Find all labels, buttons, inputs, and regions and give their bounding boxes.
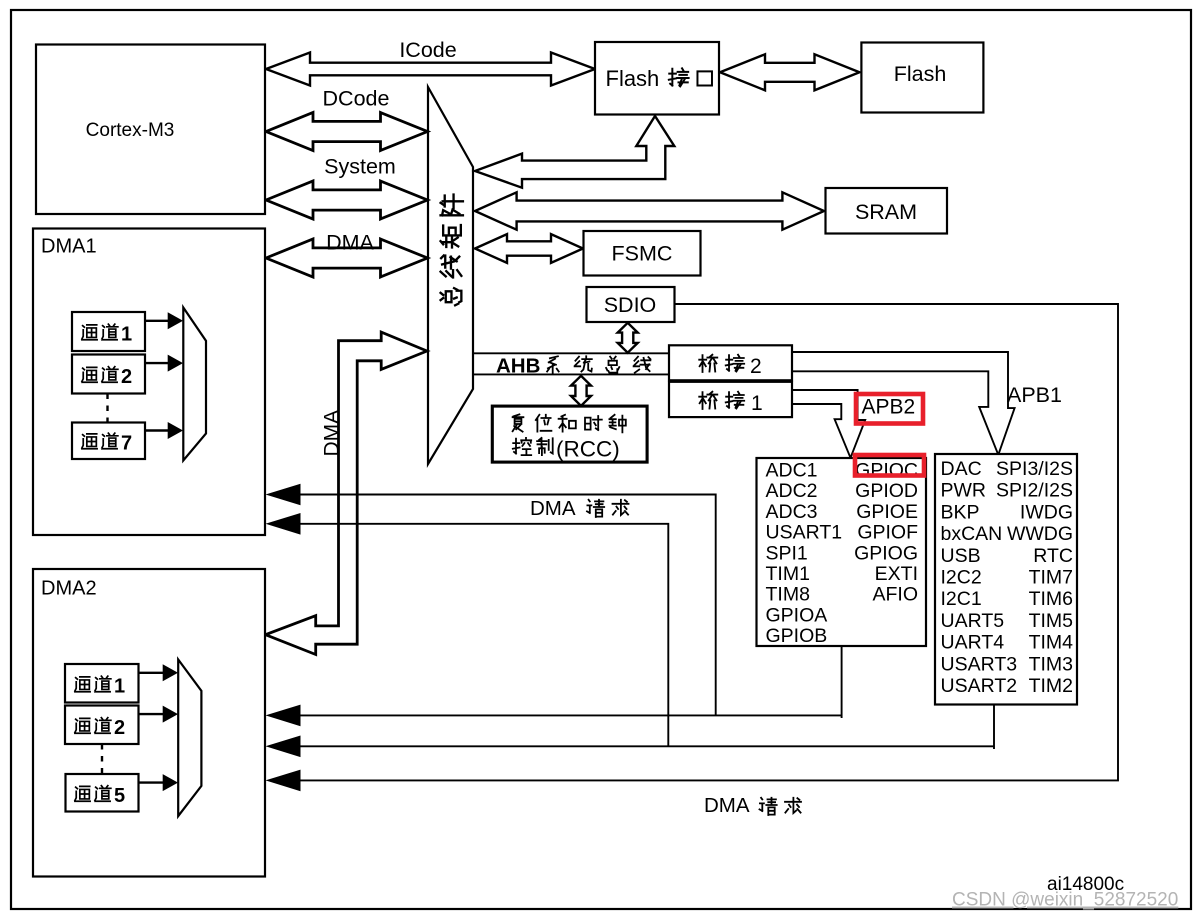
svg-text:IWDG: IWDG <box>1020 501 1073 523</box>
svg-text:DMA1: DMA1 <box>41 236 97 258</box>
arrowhead DMA request into DMA1 lower <box>266 513 301 535</box>
svg-text:WWDG: WWDG <box>1007 523 1073 545</box>
SDIO to AHB vertical double arrow <box>618 323 638 353</box>
svg-text:GPIOC: GPIOC <box>855 460 918 482</box>
stub DMA2 ch1 to mux <box>139 672 165 674</box>
wire DMA request branch to DMA1 ch A <box>292 495 716 716</box>
block RCC reset and clock control <box>492 406 647 462</box>
wire bridge2 to APB1 funnel left <box>792 371 998 455</box>
FSMC double arrow <box>475 234 583 263</box>
svg-text:I2C1: I2C1 <box>941 588 982 610</box>
arrowhead DMA request into DMA2 first <box>266 705 301 727</box>
channel box DMA1 ch1 <box>72 312 145 351</box>
svg-text:GPIOE: GPIOE <box>856 501 918 523</box>
svg-text:BKP: BKP <box>941 501 980 523</box>
svg-text:DMA2: DMA2 <box>41 578 97 600</box>
stub DMA1 ch7 to mux <box>145 429 169 431</box>
svg-text:Flash: Flash <box>894 62 947 86</box>
mux trapezoid DMA1 <box>183 308 206 461</box>
AHB to RCC vertical double arrow <box>571 376 591 406</box>
block SDIO <box>587 287 675 322</box>
arrowhead DMA request into DMA1 upper <box>266 484 301 506</box>
svg-text:2: 2 <box>121 366 132 388</box>
bent DMA arrow DMA2 to bus matrix <box>266 332 428 654</box>
svg-text:TIM7: TIM7 <box>1029 567 1073 589</box>
wire DMA request line into DMA2 second <box>292 745 994 747</box>
mux trapezoid DMA2 <box>178 660 201 817</box>
svg-text:GPIOB: GPIOB <box>766 625 828 647</box>
red highlight box GPIOC <box>855 455 924 476</box>
wire APB2 peripherals down stub <box>841 646 843 718</box>
bent arrow bus matrix to Flash interface <box>475 116 674 188</box>
block bridge1 <box>669 382 792 417</box>
svg-text:System: System <box>324 155 396 179</box>
svg-text:(RCC): (RCC) <box>556 437 620 462</box>
wire SDIO to DMA2 request loop <box>292 304 1118 780</box>
arrowhead DMA request into DMA2 second <box>266 736 301 758</box>
block APB1 peripherals <box>935 454 1077 705</box>
channel box DMA1 ch7 <box>72 423 145 460</box>
svg-text:DMA: DMA <box>321 410 344 457</box>
svg-text:bxCAN: bxCAN <box>941 523 1003 545</box>
wire bridge2 to APB1 funnel right <box>792 352 1015 455</box>
svg-text:USART1: USART1 <box>766 522 843 544</box>
svg-text:TIM3: TIM3 <box>1029 653 1073 675</box>
block SRAM <box>826 188 948 234</box>
svg-text:UART4: UART4 <box>941 632 1005 654</box>
svg-text:AFIO: AFIO <box>872 584 918 606</box>
block DMA1 <box>33 229 265 536</box>
svg-text:TIM8: TIM8 <box>766 584 810 606</box>
svg-text:CSDN @weixin_52872520: CSDN @weixin_52872520 <box>952 890 1178 911</box>
block APB2 peripherals <box>757 458 927 646</box>
svg-text:DMA: DMA <box>704 794 750 817</box>
svg-text:TIM6: TIM6 <box>1029 588 1073 610</box>
stub DMA1 ch1 to mux <box>145 320 169 322</box>
ICode double arrow <box>266 53 595 86</box>
svg-text:7: 7 <box>121 433 132 455</box>
wire AHB bus upper segment <box>473 352 672 354</box>
svg-text:SDIO: SDIO <box>604 293 657 317</box>
svg-text:2: 2 <box>750 355 762 378</box>
svg-text:DCode: DCode <box>323 87 390 111</box>
svg-text:1: 1 <box>751 392 763 415</box>
block Flash interface <box>595 42 719 115</box>
svg-text:TIM2: TIM2 <box>1029 675 1073 697</box>
red highlight box APB2 <box>856 394 923 424</box>
svg-text:I2C2: I2C2 <box>941 567 982 589</box>
svg-text:DAC: DAC <box>941 458 982 480</box>
svg-text:APB1: APB1 <box>1007 383 1062 407</box>
stub DMA2 ch2 to mux <box>139 713 165 715</box>
wire bridge1 to APB2 funnel left <box>792 404 851 458</box>
svg-text:ADC2: ADC2 <box>766 480 818 502</box>
svg-text:2: 2 <box>114 717 125 739</box>
svg-text:USB: USB <box>941 545 981 567</box>
svg-text:DMA: DMA <box>530 497 576 520</box>
svg-text:FSMC: FSMC <box>612 242 673 266</box>
channel box DMA1 ch2 <box>72 355 145 394</box>
svg-text:SPI3/I2S: SPI3/I2S <box>996 458 1073 480</box>
dashed link DMA2 ch2 to ch5 <box>101 744 103 774</box>
block Cortex-M3 <box>36 45 265 215</box>
svg-text:PWR: PWR <box>941 480 987 502</box>
bus matrix block <box>428 87 473 464</box>
wire bridge1 to APB2 funnel right <box>792 390 865 458</box>
svg-text:SRAM: SRAM <box>855 200 917 224</box>
svg-text:GPIOF: GPIOF <box>857 522 918 544</box>
svg-text:ADC1: ADC1 <box>766 460 818 482</box>
stub DMA2 ch5 to mux <box>139 781 165 783</box>
DMA double arrow DMA1 to bus matrix <box>266 239 428 277</box>
svg-text:TIM4: TIM4 <box>1029 632 1074 654</box>
channel box DMA2 ch1 <box>65 664 139 703</box>
svg-text:ADC3: ADC3 <box>766 501 818 523</box>
svg-text:UART5: UART5 <box>941 610 1005 632</box>
svg-text:APB2: APB2 <box>862 396 916 419</box>
svg-text:GPIOD: GPIOD <box>855 480 918 502</box>
block bridge2 <box>669 345 792 380</box>
block Flash <box>861 43 983 113</box>
arrowhead DMA request into DMA2 third <box>266 770 301 792</box>
svg-text:5: 5 <box>114 785 125 807</box>
Flash interface to Flash double arrow <box>720 54 860 90</box>
wire DMA request branch to DMA1 ch B <box>292 524 668 747</box>
svg-text:1: 1 <box>114 676 125 698</box>
svg-text:1: 1 <box>121 324 132 346</box>
wire AHB bus lower segment <box>473 373 672 375</box>
svg-text:RTC: RTC <box>1033 545 1073 567</box>
block DMA2 <box>33 569 265 877</box>
dashed link DMA1 ch2 to ch7 <box>106 394 108 423</box>
channel box DMA2 ch2 <box>65 706 139 745</box>
svg-text:Cortex-M3: Cortex-M3 <box>86 120 175 141</box>
svg-text:ICode: ICode <box>399 38 456 62</box>
svg-text:TIM5: TIM5 <box>1029 610 1074 632</box>
svg-text:AHB: AHB <box>496 355 540 378</box>
DCode double arrow <box>266 113 428 151</box>
svg-text:GPIOA: GPIOA <box>766 604 828 626</box>
channel box DMA2 ch5 <box>66 774 139 812</box>
stub DMA1 ch2 to mux <box>145 362 169 364</box>
svg-text:SPI2/I2S: SPI2/I2S <box>996 480 1073 502</box>
wire DMA request line into DMA2 first <box>292 714 842 716</box>
svg-text:USART2: USART2 <box>941 675 1018 697</box>
svg-text:TIM1: TIM1 <box>766 563 810 585</box>
svg-text:Flash: Flash <box>606 66 660 91</box>
wire APB1 peripherals down stub <box>993 705 995 750</box>
svg-text:SPI1: SPI1 <box>766 542 808 564</box>
svg-text:EXTI: EXTI <box>875 563 918 585</box>
svg-text:DMA: DMA <box>326 231 374 255</box>
svg-text:GPIOG: GPIOG <box>854 542 918 564</box>
SRAM double arrow <box>475 192 824 229</box>
block FSMC <box>584 231 701 276</box>
svg-text:USART3: USART3 <box>941 653 1018 675</box>
System double arrow <box>266 181 428 219</box>
label bus matrix vertical <box>441 288 462 305</box>
